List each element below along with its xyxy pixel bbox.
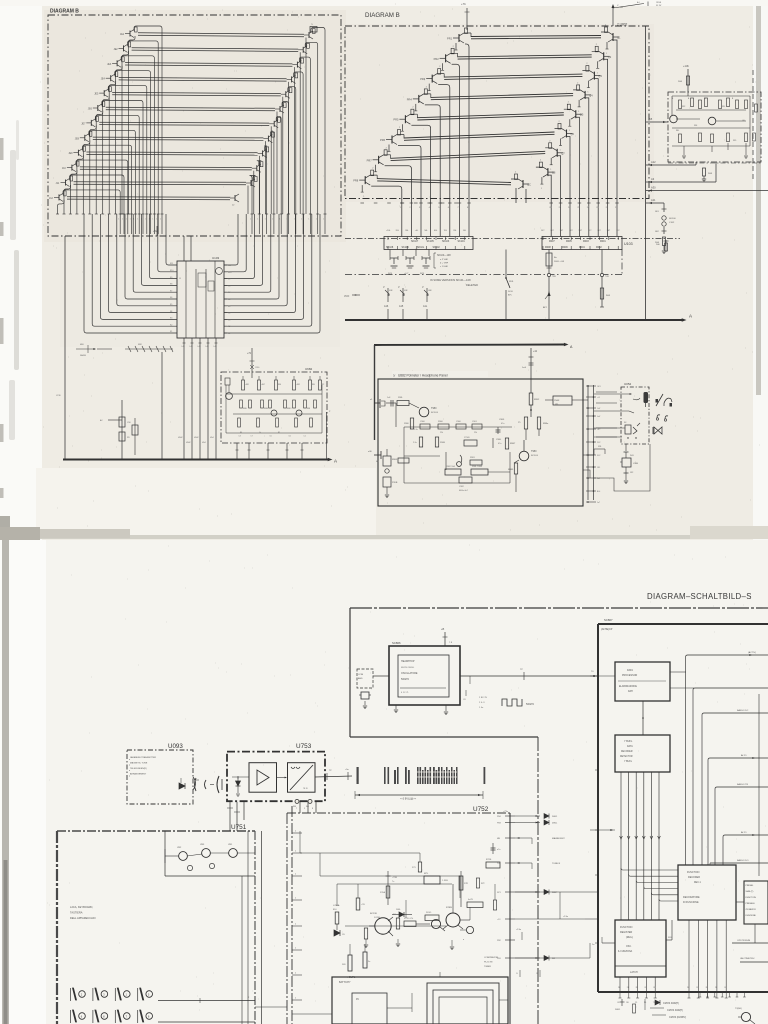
scan shading wash nested bus: [60, 242, 340, 347]
wire right border vertical diagram2: [645, 26, 647, 320]
switch W01 AFC: [505, 250, 507, 279]
wire pair level 12 diagram1: [67, 196, 230, 199]
svg-text:1: 1: [316, 219, 317, 221]
svg-text:1: 1: [308, 219, 309, 221]
diode in U093: [179, 783, 185, 789]
svg-text:U882 Polmeter / Headphone Pa: U882 Polmeter / Headphone Panel: [398, 374, 448, 378]
svg-text:JE6: JE6: [88, 108, 93, 111]
wire fan left 8 diagram1: [89, 130, 136, 234]
bus loop right 11: [224, 214, 238, 265]
line basso do: [710, 862, 768, 864]
svg-text:IL FUNZIONA: IL FUNZIONA: [618, 950, 633, 953]
svg-text:K9: K9: [170, 277, 172, 279]
svg-text:2G?: 2G?: [597, 442, 600, 444]
extra resistors right block: [755, 104, 758, 112]
svg-text:2L: 2L: [627, 987, 629, 989]
wire left border vertical to bus: [64, 236, 66, 459]
wire long bend from pin to chain: [594, 444, 650, 491]
resistors top row U602: [242, 380, 245, 390]
wire fan right 8 diagram1: [270, 131, 274, 234]
svg-text:U751: U751: [231, 824, 247, 831]
connector SK100 C102: [662, 216, 666, 220]
svg-text:OSCILLATORE: OSCILLATORE: [401, 672, 418, 675]
svg-text:S3: S3: [228, 319, 230, 321]
wire fan right 2 diagram2: [604, 59, 608, 236]
svg-text:+1b: +1b: [533, 350, 538, 353]
svg-text:R7RB: R7RB: [446, 907, 452, 909]
transistor cell right 8: [263, 138, 268, 140]
small box on diagram1 border corner: [310, 27, 317, 33]
svg-text:SK108: SK108: [386, 246, 394, 249]
svg-text:COM: COM: [358, 674, 363, 676]
svg-text:BATT/CHY: BATT/CHY: [339, 981, 351, 984]
svg-text:VCO: VCO: [344, 295, 349, 298]
svg-text:1: 1: [145, 219, 146, 221]
svg-text:1: 1: [160, 219, 161, 221]
svg-text:SK100—108: SK100—108: [437, 254, 451, 257]
svg-text:PR2: PR2: [434, 57, 440, 61]
pin SP1 U752: [505, 891, 515, 893]
svg-text:2.2o: 2.2o: [413, 442, 417, 444]
transistor cell right 6: [275, 108, 280, 110]
wire drop right 5 diagram1: [282, 97, 284, 214]
svg-text:BASSO TR: BASSO TR: [737, 783, 748, 786]
pin into data processor: [590, 675, 615, 677]
svg-text:MAGNETIC TONE: MAGNETIC TONE: [130, 762, 148, 765]
svg-text:1: 1: [323, 219, 324, 221]
svg-text:SA/SM: SA/SM: [80, 354, 86, 357]
wire drop left 3 diagram1: [116, 66, 123, 214]
svg-text:VbO: VbO: [202, 442, 206, 444]
resistor 2H6: [686, 76, 689, 85]
svg-text:2L: 2L: [706, 987, 708, 989]
svg-text:R88L: R88L: [243, 408, 247, 410]
svg-text:VbW: VbW: [194, 437, 198, 439]
light band below bus left page: [36, 468, 376, 536]
wire fan left 8 diagram2: [371, 186, 402, 236]
resistor R967 vertical: [505, 438, 508, 449]
svg-text:SK100: SK100: [669, 218, 676, 220]
svg-text:A15: A15: [399, 305, 404, 308]
svg-text:PRESELE: PRESELE: [746, 903, 756, 905]
svg-text:1: 1: [122, 219, 123, 221]
oscillator block SC806: [389, 646, 460, 705]
wires extra right block: [687, 92, 689, 96]
wire fan right 1 diagram2: [613, 40, 617, 237]
svg-text:R002: R002: [596, 246, 602, 249]
svg-text:R82: R82: [682, 106, 685, 108]
svg-text:QC: QC: [527, 183, 531, 187]
svg-text:P20B: P20B: [392, 482, 398, 484]
svg-text:500kHz: 500kHz: [401, 678, 410, 681]
resistor capacitor cluster left bottom: [121, 400, 123, 459]
svg-text:DIAGRAM B: DIAGRAM B: [365, 12, 400, 19]
resistor R980 vertical: [410, 418, 413, 429]
svg-text:VCB: VCB: [56, 395, 61, 397]
white top strip: [0, 0, 768, 6]
svg-text:2 4–3: 2 4–3: [479, 702, 485, 704]
svg-text:A: A: [689, 314, 692, 319]
svg-text:ELABORAZIONE: ELABORAZIONE: [619, 685, 637, 688]
svg-text:S10: S10: [228, 272, 231, 274]
svg-text:U103: U103: [212, 256, 220, 260]
wire fan left 9 diagram1: [82, 145, 131, 234]
resistor 2H4: [663, 237, 666, 246]
svg-text:J10: J10: [62, 167, 67, 170]
svg-text:DETECTOR: DETECTOR: [620, 756, 633, 758]
svg-text:K4: K4: [170, 311, 172, 313]
bus loop right 8: [224, 214, 263, 285]
svg-text:PRESEL: PRESEL: [746, 885, 755, 887]
bus loop left 5: [117, 214, 177, 306]
svg-text:R007: R007: [549, 240, 555, 243]
bus loop left 2: [92, 214, 177, 326]
wire drop right 7 diagram1: [270, 126, 272, 214]
y buffer box: [615, 735, 670, 772]
separator vertical x538: [537, 737, 539, 1024]
svg-text:1N4F: 1N4F: [554, 400, 560, 402]
speaker note symbol: [457, 462, 462, 467]
resistor R716: [486, 862, 500, 868]
svg-text:R003: R003: [583, 240, 589, 243]
wire U602 right vertical: [326, 412, 328, 459]
line A3: [646, 181, 716, 183]
diode arrow component left: [76, 348, 95, 350]
svg-text:R7R: R7R: [464, 883, 469, 885]
function register box: [615, 920, 666, 977]
svg-text:R72: R72: [481, 883, 484, 885]
svg-text:R985: R985: [508, 469, 514, 471]
svg-text:TUNE R: TUNE R: [552, 863, 561, 865]
wires into battery box: [411, 993, 413, 1012]
wire pair level 3 diagram1: [125, 63, 292, 64]
wire fan right 1 diagram1: [311, 28, 325, 235]
wire fan left 5 diagram2: [411, 125, 430, 236]
svg-text:+881: +881: [245, 384, 249, 386]
stub left 5 diagram2: [401, 124, 403, 131]
bus loop left 7: [133, 214, 177, 292]
outer border bottom diagram top edge: [350, 607, 768, 609]
svg-text:+L1: +L1: [597, 397, 600, 399]
grounds U752: [365, 939, 367, 944]
svg-text:R4L: R4L: [676, 130, 679, 132]
svg-text:A12: A12: [651, 160, 656, 164]
svg-text:3/: 3/: [393, 374, 395, 378]
wire drop left 11 diagram1: [64, 185, 71, 214]
bus loop right 5: [224, 214, 287, 306]
wire fan right 4 diagram1: [294, 72, 304, 234]
connector assembly lower dash-dot border: [345, 274, 622, 276]
svg-text:PR5: PR5: [393, 118, 399, 122]
svg-text:RO05: RO05: [426, 912, 432, 914]
svg-text:OSC.: OSC.: [626, 946, 632, 948]
U752 pin ticks left inside: [292, 832, 302, 834]
transistor T1 left: [419, 407, 429, 417]
capacitor C96O vertical: [419, 437, 422, 447]
data bus verticals: [620, 772, 622, 920]
wires lower panel: [404, 455, 440, 457]
svg-text:2L: 2L: [696, 987, 698, 989]
resistor network center: [364, 928, 367, 939]
svg-text:+S?: +S?: [597, 429, 600, 431]
wire panel to J51 bend: [583, 454, 594, 456]
wire vertical x157 to bus: [161, 352, 163, 459]
svg-text:R96B: R96B: [440, 442, 446, 444]
data bus bends into decoder: [621, 868, 678, 870]
bus loop left 6: [125, 214, 177, 299]
square wave symbol: [502, 699, 522, 706]
arrow into function register left: [590, 829, 615, 831]
svg-text:T1: T1: [653, 1002, 655, 1004]
svg-text:DELETED: DELETED: [466, 283, 478, 287]
svg-text:78:70: 78:70: [303, 788, 308, 790]
wire pair level 11 diagram1: [74, 181, 247, 184]
pin tick row diagram1 left: [161, 213, 164, 215]
svg-text:SK106: SK106: [402, 246, 410, 249]
wire fan left 4 diagram2: [425, 105, 440, 237]
svg-text:A-0: A-0: [637, 1, 640, 4]
wire decoder to presel: [736, 901, 744, 903]
wire drop left 7 diagram1: [90, 125, 97, 214]
svg-text:OK1: OK1: [597, 386, 601, 388]
wire pair level 9 diagram1: [86, 151, 257, 154]
svg-text:JAPANESE TRANSMITTER: JAPANESE TRANSMITTER: [130, 756, 157, 759]
stub right 6 diagram2: [560, 139, 562, 146]
svg-text:+807: +807: [261, 384, 265, 386]
switch stubs below connector: [389, 250, 391, 257]
svg-text:SK107: SK107: [411, 240, 419, 243]
wire register to decoder: [666, 939, 672, 941]
U602 bottom verticals to bus: [236, 443, 238, 459]
diode in U753: [236, 781, 241, 786]
svg-text:SK 1W: SK 1W: [656, 5, 662, 7]
wire fan right 7 diagram1: [276, 116, 281, 234]
svg-text:DATA: DATA: [627, 745, 633, 748]
resistors lower left U752: [348, 955, 352, 971]
transistor TR2 in U752: [446, 913, 460, 927]
wires data processor to frames: [670, 671, 686, 673]
svg-text:S8: S8: [228, 285, 230, 287]
wire fan right 8 diagram2: [548, 175, 551, 236]
svg-text:R008—008: R008—008: [554, 261, 565, 263]
svg-text:S9: S9: [228, 279, 230, 281]
bus loop right 1: [224, 214, 320, 333]
jack J52: [625, 467, 627, 473]
diagram B middle border: [345, 26, 649, 199]
jack barrel in U052: [644, 392, 649, 403]
wires potentiometers: [187, 854, 202, 856]
svg-text:R8L: R8L: [312, 384, 315, 386]
wire pin to jack with arrow: [594, 393, 630, 395]
resistor 2H0 right of U103: [665, 240, 667, 252]
bus A left page: [63, 459, 329, 461]
components middle row U602: [240, 400, 243, 408]
svg-text:PR8: PR8: [353, 179, 359, 183]
svg-text:1: 1: [257, 219, 258, 221]
oscillator output line to SC807: [460, 675, 598, 677]
pin PB1 U752: [505, 957, 515, 959]
paper background bottom scan: [0, 540, 768, 1024]
ticks below SC807 bottom: [699, 992, 701, 997]
svg-text:Q3: Q3: [598, 74, 602, 78]
resistor 2H1 chain below U052: [625, 444, 627, 451]
mixer box in U753: [288, 763, 316, 793]
bus loop left 8: [141, 214, 177, 285]
svg-text:TIMER: TIMER: [484, 966, 491, 968]
transistor cell right 3: [292, 64, 297, 66]
svg-text:R905: R905: [392, 459, 398, 461]
output line U753 to barcode: [315, 776, 352, 777]
connector row R001-R008: [542, 237, 622, 250]
resistor chain mid U752: [418, 862, 421, 872]
wire IC bottom verticals to bus A: [183, 338, 185, 459]
components below SC807 left: [621, 999, 623, 1006]
svg-text:+B: +B: [441, 627, 445, 631]
svg-text:b: b: [404, 294, 405, 296]
wire fan left 2 diagram1: [128, 41, 159, 234]
amplifier box in U753: [249, 763, 277, 793]
svg-text:BC238: BC238: [370, 913, 377, 915]
svg-text:R952: R952: [534, 399, 540, 401]
svg-text:T980: T980: [431, 407, 437, 410]
transistor T980 right: [519, 451, 529, 461]
stub left 8 diagram2: [361, 185, 363, 192]
svg-text:A30: A30: [651, 186, 656, 190]
svg-text:SK10L: SK10L: [417, 246, 425, 249]
interface module box right: [668, 92, 761, 162]
transistor T680 in U602: [226, 393, 233, 400]
ground crystal: [363, 705, 367, 707]
svg-text:2L: 2L: [644, 987, 646, 989]
capacitor C982: [459, 477, 472, 483]
svg-text:5LP6B: 5LP6B: [374, 917, 381, 919]
hybrid module U602 box: [221, 372, 327, 443]
arrow on activ line: [749, 654, 752, 656]
svg-text:R006: R006: [562, 246, 568, 249]
bus loop left 11: [166, 214, 177, 265]
white right margin strip top scan: [753, 0, 768, 540]
svg-text:TASTIERA: TASTIERA: [70, 911, 83, 915]
pin PB4 U752: [505, 815, 515, 817]
stub left 2 diagram2: [442, 63, 444, 70]
right block border dashes: [752, 70, 754, 180]
svg-text:Y BUFL: Y BUFL: [624, 761, 633, 763]
wires in right block: [672, 95, 750, 97]
svg-text:BC5LB: BC5LB: [531, 455, 538, 457]
wires U752 pins to SC807: [515, 891, 598, 893]
svg-text:R80: R80: [278, 384, 281, 386]
svg-text:VbW: VbW: [178, 437, 182, 439]
capacitor 1nF input: [386, 402, 396, 404]
inner partition U751: [164, 831, 166, 876]
svg-text:(REG.): (REG.): [626, 937, 633, 939]
svg-text:+13a: +13a: [563, 916, 569, 918]
wire fan left 7 diagram1: [95, 115, 139, 234]
wire fan left 1 diagram1: [134, 26, 162, 234]
outer border oscillator bottom edge: [350, 736, 538, 738]
wire fan left 7 diagram2: [385, 166, 412, 237]
panel U882 box: [378, 379, 583, 506]
svg-text:SK103: SK103: [442, 240, 450, 243]
white left margin strip bottom scan: [0, 540, 46, 1024]
jack JE1: [663, 203, 665, 212]
resistor P5 pair: [530, 409, 532, 411]
wire drop left 2 diagram1: [122, 51, 129, 214]
svg-text:AFC: AFC: [508, 294, 513, 297]
svg-text:CMOS (D2DHz): CMOS (D2DHz): [669, 1016, 686, 1019]
torn paper marks left edge: [0, 138, 4, 160]
speckle noise: [40, 4, 760, 530]
speaker icon bowtie: [654, 427, 662, 434]
svg-text:+13b: +13b: [683, 64, 689, 68]
pins on U753 bottom border: [295, 799, 299, 803]
svg-text:K10: K10: [170, 270, 173, 272]
wire pair level 2 diagram2: [458, 55, 592, 57]
svg-text:PR4: PR4: [407, 97, 413, 101]
svg-text:DIAGRAM–SCHALTBILD–S: DIAGRAM–SCHALTBILD–S: [647, 592, 752, 601]
svg-text:K8: K8: [170, 284, 172, 286]
wire pair level 2 diagram1: [132, 48, 299, 49]
bus loop right 6: [224, 214, 279, 299]
svg-text:A1L: A1L: [423, 305, 428, 308]
wire pair level 10 diagram1: [80, 166, 252, 169]
wire pair level 5 diagram1: [112, 92, 281, 93]
svg-text:(AFHE)CP: (AFHE)CP: [601, 628, 613, 631]
wire horizontal y926: [345, 925, 446, 927]
pin tick row diagram1 right: [324, 213, 327, 215]
diagram B left border: [48, 15, 341, 236]
svg-text:K5: K5: [170, 304, 172, 306]
svg-text:D801: D801: [552, 816, 558, 818]
wire drop right 10 diagram1: [253, 171, 255, 214]
svg-text:1S1: 1S1: [597, 467, 600, 469]
svg-text:U752: U752: [473, 806, 489, 813]
component 1N4F box: [553, 396, 572, 405]
chain x461 upper: [460, 871, 462, 907]
svg-text:DEC.1: DEC.1: [694, 882, 701, 884]
svg-text:Tu: Tu: [392, 881, 394, 883]
svg-text:5mE: 5mE: [522, 367, 527, 369]
outer border left edge: [349, 608, 351, 737]
svg-text:L2CA, KEYBOARD,: L2CA, KEYBOARD,: [70, 905, 93, 909]
svg-text:U052: U052: [624, 382, 632, 386]
svg-text:DI FUNCIONE: DI FUNCIONE: [683, 901, 699, 904]
module U753 box: [227, 752, 325, 802]
jack between U093 and U753: [195, 778, 197, 791]
resistor R96B vertical: [435, 437, 438, 447]
wire fan left 5 diagram1: [108, 86, 147, 234]
svg-text:D801: D801: [615, 1009, 621, 1011]
svg-text:2 BV 3V: 2 BV 3V: [479, 697, 488, 699]
svg-text:T980: T980: [531, 450, 537, 453]
svg-text:OPST/DRUM: OPST/DRUM: [737, 940, 750, 942]
transistor cell right 2: [298, 49, 303, 51]
pin PB2 U752: [505, 939, 515, 941]
pin +13 U752: [505, 918, 515, 920]
U751 right vertical wires: [247, 831, 249, 1024]
barcode crosshatch lines: [417, 771, 457, 773]
pin PB3 U752: [505, 822, 515, 824]
svg-text:SHSL(T): SHSL(T): [746, 891, 754, 893]
smudge left margin handwriting: [10, 150, 16, 240]
resistor box R7RB: [425, 915, 439, 921]
component 17569 box: [464, 440, 477, 446]
svg-text:R2: R2: [322, 384, 324, 386]
function decoder box: [678, 865, 736, 920]
svg-text:C1: C1: [304, 436, 306, 438]
svg-text:K2: K2: [170, 324, 172, 326]
wire fan right 10 diagram1: [257, 161, 262, 234]
